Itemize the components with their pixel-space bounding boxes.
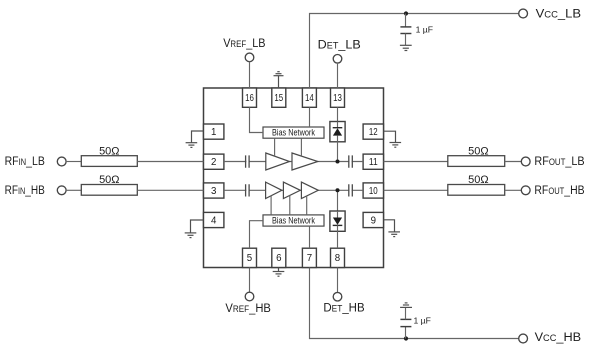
pin 13 (331, 88, 345, 107)
op-amp A5 (HB stage 3) (301, 182, 318, 198)
svg-text:50Ω: 50Ω (99, 174, 119, 186)
pin 2 (204, 154, 224, 169)
svg-text:50Ω: 50Ω (468, 146, 488, 158)
wire pin10 to R4 (384, 189, 448, 191)
ground at pin 4 (185, 220, 204, 238)
pin 14 (302, 88, 316, 107)
wire pin8 to DET_HB terminal (337, 268, 339, 293)
capacitor C6 1uF (VCC_HB decoupling) (400, 307, 411, 338)
svg-text:7: 7 (307, 253, 312, 264)
terminal RFOUT_LB (521, 157, 530, 166)
ground above pin 15 (inverted) (274, 72, 284, 88)
svg-text:3: 3 (211, 186, 216, 197)
IC U1 body outline (204, 88, 384, 268)
op-amp A2 (LB stage 2) (292, 153, 318, 170)
svg-text:8: 8 (335, 253, 340, 264)
svg-text:11: 11 (369, 157, 378, 168)
svg-text:16: 16 (245, 93, 254, 104)
node junction D1/row (336, 160, 340, 164)
svg-text:1: 1 (211, 127, 216, 138)
resistor R3 50ohm (448, 156, 505, 167)
svg-text:RFIN_LB: RFIN_LB (5, 154, 45, 168)
pin 11 (363, 154, 383, 169)
svg-text:50Ω: 50Ω (468, 174, 488, 186)
svg-text:13: 13 (333, 93, 342, 104)
pin 4 (204, 212, 224, 227)
svg-text:RFOUT_HB: RFOUT_HB (534, 183, 584, 197)
terminal RFOUT_HB (521, 186, 530, 195)
pin 12 (363, 124, 383, 139)
pin 15 (272, 88, 286, 107)
wire pin5 to VREF_HB terminal (249, 268, 251, 293)
svg-text:1 µF: 1 µF (416, 25, 433, 35)
svg-text:12: 12 (369, 127, 378, 138)
pin 10 (363, 183, 383, 198)
svg-text:DET_HB: DET_HB (323, 301, 364, 315)
wire A3 to HB bias (270, 196, 272, 215)
wire LB bias to A2 (300, 138, 302, 156)
wire D2 to pin8 (337, 225, 339, 248)
wire DET_LB terminal to pin13 (337, 63, 339, 88)
wire pin13 to D1 (337, 107, 339, 127)
svg-text:2: 2 (211, 157, 216, 168)
wire pin3 row internal (pin3 to cap to amps to cap to pin10) (224, 189, 363, 191)
wire pin11 to R3 (384, 161, 448, 163)
svg-text:4: 4 (211, 215, 217, 226)
node junction D2/row (336, 188, 340, 192)
wire RFIN_HB terminal to R2 (66, 189, 81, 191)
terminal VCC_LB (519, 9, 528, 18)
svg-text:6: 6 (276, 253, 281, 264)
terminal DET_LB (333, 55, 342, 64)
pin 9 (363, 212, 383, 227)
svg-text:9: 9 (371, 215, 376, 226)
svg-text:15: 15 (274, 93, 283, 104)
pin 3 (204, 183, 224, 198)
diode D2 (detector, HB) (330, 211, 345, 231)
terminal VREF_LB (245, 53, 254, 62)
ground at pin 1 (186, 131, 204, 147)
svg-text:RFIN_HB: RFIN_HB (5, 183, 45, 197)
ground at pin 12 (384, 131, 402, 147)
svg-text:RFOUT_LB: RFOUT_LB (534, 154, 584, 168)
wire HB bias network to pin5 (250, 221, 264, 249)
ground below pin 6 (273, 268, 285, 277)
svg-text:10: 10 (369, 186, 378, 197)
svg-text:VREF_LB: VREF_LB (223, 36, 265, 50)
pin 7 (302, 248, 316, 267)
svg-text:1 µF: 1 µF (414, 315, 431, 325)
wire HB row junction to D2 (337, 190, 339, 217)
wire pin16 to LB bias network (250, 107, 264, 132)
capacitor C5 1uF (VCC_LB decoupling) (400, 14, 411, 46)
resistor R4 50ohm (448, 185, 505, 196)
svg-text:VCC_LB: VCC_LB (536, 6, 582, 20)
wire RFIN_LB terminal to R1 (66, 161, 81, 163)
capacitor C3 (series, pin11 row right) (349, 155, 353, 167)
terminal DET_HB (333, 292, 342, 301)
ground at pin 9 (384, 220, 401, 237)
svg-text:50Ω: 50Ω (99, 145, 119, 157)
pin 6 (272, 248, 286, 267)
svg-text:5: 5 (247, 253, 252, 264)
wire A5 to HB bias (306, 196, 308, 215)
pin 1 (204, 124, 224, 139)
wire A4 to HB bias (289, 195, 291, 215)
pin 16 (243, 88, 257, 107)
diode D1 (detector, LB) (330, 122, 345, 142)
node junction VCC_HB rail / C6 (404, 336, 408, 340)
terminal RFIN_HB (57, 186, 66, 195)
svg-text:14: 14 (305, 93, 314, 104)
Bias Network box (HB, bottom) (263, 215, 324, 226)
svg-text:Bias Network: Bias Network (272, 216, 315, 226)
wire pin14 to LB bias network (309, 107, 311, 127)
wire pin2 row internal (pin2 to cap to amps to cap to pin11) (224, 161, 363, 163)
wire HB bias network to pin7 (309, 226, 311, 248)
wire pin14 riser to VCC_LB rail (310, 14, 519, 89)
capacitor C1 (series, pin2 row left) (246, 155, 250, 167)
svg-text:VREF_HB: VREF_HB (225, 301, 271, 315)
pin 5 (243, 248, 257, 267)
op-amp A1 (LB stage 1) (266, 153, 290, 170)
terminal VREF_HB (245, 292, 254, 301)
svg-text:DET_LB: DET_LB (318, 37, 361, 51)
op-amp A3 (HB stage 1) (266, 182, 282, 198)
wire R1 to pin2 (137, 161, 203, 163)
wire R2 to pin3 (137, 189, 203, 191)
Bias Network box (LB, top) (263, 127, 324, 138)
svg-text:VCC_HB: VCC_HB (535, 330, 582, 344)
resistor R1 50ohm (81, 156, 137, 167)
pin 8 (331, 248, 345, 267)
wire pin7 riser to VCC_HB rail (310, 268, 519, 339)
node junction VCC_LB rail / C5 (404, 11, 408, 15)
capacitor C2 (series, pin3 row left) (246, 184, 250, 196)
wire D1 to LB row junction (337, 142, 339, 162)
resistor R2 50ohm (81, 185, 137, 196)
capacitor C4 (series, pin10 row right) (349, 184, 353, 196)
ground below C5 (400, 45, 412, 50)
ground above C6 (inverted) (400, 303, 412, 308)
wire R3 to RFOUT_LB terminal (505, 161, 522, 163)
terminal RFIN_LB (57, 157, 66, 166)
terminal VCC_HB (519, 334, 528, 343)
wire VREF_LB terminal to pin16 (249, 62, 251, 89)
wire R4 to RFOUT_HB terminal (505, 189, 522, 191)
svg-text:Bias Network: Bias Network (272, 128, 315, 138)
wire LB bias to A1 (274, 138, 276, 156)
op-amp A4 (HB stage 2) (283, 182, 300, 198)
